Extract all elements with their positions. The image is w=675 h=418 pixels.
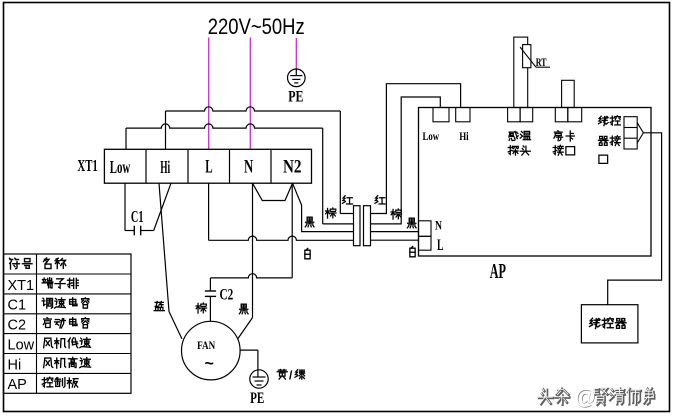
svg-text:Low: Low [110,157,131,177]
svg-text:N2: N2 [283,157,302,178]
motor FAN [182,321,241,380]
resistor RT thermistor body [523,45,531,68]
wire white run to connector [209,236,354,240]
connector plug right half [364,206,371,246]
wire C1 to Hi diagonal [141,230,154,232]
wire N supply (magenta) [249,38,251,150]
svg-text:AP: AP [490,259,506,283]
wire N down to fan (black) [252,183,254,317]
wire label white (right) [410,246,415,256]
sensor loop wires [514,37,528,107]
wire Low down to C1 [124,183,126,230]
svg-text:PE: PE [288,89,303,106]
svg-text:FAN: FAN [197,339,215,352]
svg-text:RT: RT [536,57,547,69]
svg-text:Low: Low [8,337,35,353]
connector arrow [637,123,643,143]
table name row 4 [44,338,53,348]
wire label black (left) [305,217,314,227]
svg-text:@: @ [575,386,596,409]
connector plug left half [354,206,361,246]
ground PE (fan earth symbol) [250,370,268,388]
wire controller box [581,305,638,343]
terminal block XT1 [104,149,311,183]
wire label red (right) [375,196,385,204]
svg-text:C2: C2 [8,318,27,334]
label wire controller interface (xian kong qi jie kou) [598,116,608,125]
label wire controller (xian kong qi) [590,318,601,328]
wire fan to PE [240,349,258,351]
wire N2 down [291,183,293,278]
wire label brown (fan) [196,303,206,313]
terminal N stub on AP [419,221,432,237]
wire label brown (right) [391,209,401,219]
wire XT1-Hi to connector (red), upper run [165,111,167,149]
pin Hi stub on AP [456,108,470,122]
svg-text:AP: AP [8,377,27,393]
svg-text:PE: PE [250,390,264,407]
table name row 1 [42,278,53,288]
wire C2 to fan [209,296,211,321]
wire label blue [154,301,164,310]
terminal L stub on AP [419,236,432,250]
wire white right to L [371,239,419,241]
svg-text:C2: C2 [220,287,234,304]
svg-text:XT1: XT1 [77,156,97,175]
wire L to white run [208,183,210,240]
svg-text:Hi: Hi [160,157,170,177]
pin room-card stubs on AP [555,108,568,122]
label sensor probe (gan wen tan tou) [509,131,518,140]
wire L supply (magenta) [208,38,210,150]
svg-text:220V~50Hz: 220V~50Hz [208,14,305,39]
svg-text:C1: C1 [8,298,27,314]
table name row 3 [43,318,51,328]
wire down to C2 [209,278,211,291]
svg-text:XT1: XT1 [8,278,35,294]
wire Hi to fan (blue) [159,183,182,339]
wire label black (fan) [239,304,248,314]
control board AP [419,108,652,257]
RT strike line [520,47,536,67]
svg-text:Hi: Hi [459,131,469,143]
wire PE supply (magenta) [295,38,297,69]
connector wire-controller interface (3 cells) [624,117,637,149]
wire label red (left) [342,196,352,204]
wire interface to wire controller [608,133,662,305]
table name row 5 [44,358,53,368]
table name row 6 [42,377,53,387]
capacitor C2 [205,290,216,292]
watermark toutiao @xianqingshidi [539,389,553,404]
svg-text:N: N [244,157,254,178]
wire label white (left) [305,248,310,258]
table header fu hao (symbol) [10,258,20,269]
svg-text:Low: Low [423,131,440,143]
legend table [4,254,132,393]
wire N2 to connector (black) [293,183,354,231]
pin Low stub on AP [433,108,449,122]
svg-text:C1: C1 [131,207,144,226]
svg-text:Hi: Hi [8,357,22,373]
capacitor C1 [133,226,135,236]
room card connector box [562,80,575,107]
svg-text:L: L [205,157,212,178]
wire XT1-Low to connector (brown), lower run [125,128,127,149]
wire black right to N [371,231,419,233]
pin sensor stubs on AP [508,108,520,122]
wire label black (right) [407,218,416,228]
wire N2 to C2 horizontal [210,274,292,278]
ground PE (top earth symbol) [288,69,306,87]
label room card interface (fang ka jie kou) [554,131,563,141]
wire N to fan diagonal [238,318,253,339]
table name row 2 [42,298,52,308]
wire N-N2 jumper (bucket) [253,183,293,200]
svg-text:N: N [435,217,442,232]
svg-text:~: ~ [205,356,214,373]
wire red right [371,84,461,214]
wire brown right [371,97,441,224]
svg-text:L: L [437,237,444,254]
wire label yellow/green [277,369,287,379]
wire label brown (left) [326,208,336,218]
table header ming cheng (name) [44,258,52,269]
